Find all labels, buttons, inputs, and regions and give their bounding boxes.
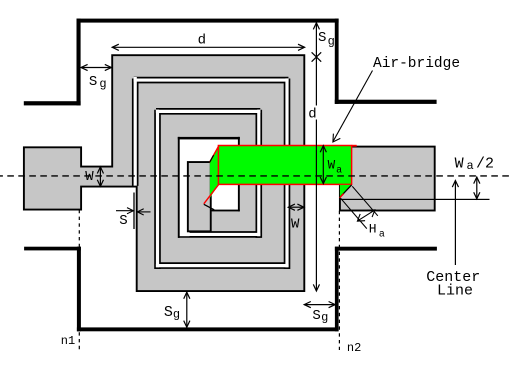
svg-text:S: S	[164, 304, 173, 321]
svg-text:d: d	[308, 107, 316, 123]
svg-text:W: W	[328, 159, 336, 173]
S arrows	[116, 208, 151, 215]
ramp top diagonal red edge	[210, 146, 219, 163]
svg-text:g: g	[321, 311, 328, 325]
ground frame: left upper vertical	[77, 19, 81, 106]
air-bridge right ramp (green triangle)	[340, 185, 352, 197]
svg-text:W: W	[85, 169, 94, 185]
svg-text:Line: Line	[437, 282, 473, 299]
spiral winding gap: white channel	[134, 77, 289, 267]
dimension line Sg+d (right side vertical)	[313, 23, 319, 291]
dimension W (right arm): arrow	[288, 204, 304, 210]
dimension S (turn spacing): helper line	[133, 193, 135, 230]
right ramp red tip	[340, 194, 344, 198]
ground frame: right lower vertical	[335, 247, 339, 332]
ramp lower black diagonal	[204, 204, 214, 210]
svg-text:a: a	[467, 159, 474, 173]
hole top edge	[178, 137, 240, 140]
svg-text:2: 2	[485, 155, 494, 172]
Wa/2 helper line	[340, 199, 490, 200]
center stub pad of spiral	[188, 162, 211, 231]
svg-text:g: g	[99, 77, 106, 91]
svg-text:/: /	[476, 155, 485, 172]
air-bridge left ramp (green)	[210, 146, 219, 198]
spiral winding gap: black edges of white channel	[134, 79, 289, 270]
ground frame: left lower vertical	[77, 247, 81, 332]
right ramp black hypotenuse	[340, 185, 352, 197]
svg-text:n1: n1	[61, 334, 75, 348]
air-bridge deck (green with red outline)	[218, 146, 351, 185]
ground frame: top-right notch horizontal	[335, 100, 437, 104]
dimension Wa (inside deck): arrow	[320, 146, 326, 184]
Center Line pointer arrow	[452, 181, 458, 266]
svg-text:a: a	[379, 229, 385, 240]
red overshoot at deck top-right corner	[352, 145, 357, 147]
ground frame: bottom-right notch horizontal	[335, 247, 437, 251]
svg-text:g: g	[173, 308, 180, 322]
ground frame: top bar	[77, 19, 339, 23]
X mark at spiral top edge	[312, 52, 322, 61]
svg-text:g: g	[328, 35, 335, 49]
right feed line	[340, 147, 435, 211]
svg-text:S: S	[312, 308, 320, 324]
ground frame: bottom-left notch horizontal	[24, 247, 81, 251]
ramp bottom diagonal red edge	[204, 184, 219, 204]
label d (right) with white backing	[307, 106, 318, 120]
svg-text:S: S	[318, 30, 326, 46]
svg-text:Air-bridge: Air-bridge	[373, 56, 460, 72]
svg-text:a: a	[336, 166, 342, 177]
svg-text:H: H	[369, 221, 377, 236]
svg-text:d: d	[198, 33, 206, 49]
svg-text:n2: n2	[347, 341, 361, 355]
ground frame: bottom bar	[77, 327, 339, 331]
svg-text:W: W	[291, 216, 300, 232]
Air-bridge pointer arrow	[333, 71, 373, 143]
hole bottom-right edge	[210, 210, 240, 212]
ground frame: top-left notch horizontal	[24, 101, 81, 105]
svg-text:S: S	[119, 213, 127, 229]
dimension d (top): line and arrowheads	[112, 44, 304, 50]
spiral inductor body with left feed pad (gray polygon)	[24, 55, 304, 291]
svg-text:S: S	[89, 74, 97, 90]
dimension W (left neck): arrow	[97, 167, 103, 187]
n1 dashed vertical	[78, 210, 80, 350]
dimension Sg (bottom-left): arrow	[184, 292, 190, 327]
hole left edge	[178, 137, 180, 238]
dimension Ha: extension lines and double arrow	[341, 186, 378, 228]
dimension Wa/2: vertical double arrow	[474, 177, 480, 199]
dimension Sg (bottom-right): arrow	[304, 302, 335, 308]
center hole (white moat around stub)	[179, 139, 238, 162]
svg-text:W: W	[455, 155, 464, 172]
center dashed line	[0, 175, 510, 177]
dimension Sg (top-left): arrow	[81, 64, 111, 70]
hole right edge	[238, 137, 240, 212]
ground frame: right upper vertical	[335, 19, 339, 104]
n2 dashed vertical	[338, 211, 340, 350]
